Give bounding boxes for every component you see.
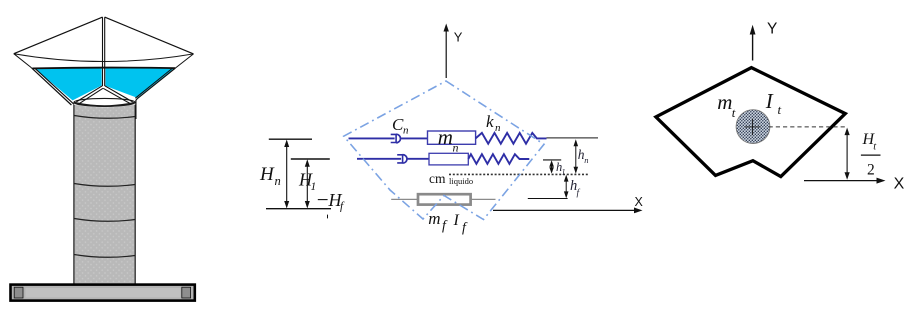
tank outline dash-dot [344, 81, 544, 220]
Y axis middle [444, 24, 463, 79]
svg-text:n: n [584, 155, 588, 165]
dim tick bottom left [266, 208, 331, 210]
tank outer wall left [32, 68, 72, 105]
label Ht over 2 [861, 131, 881, 179]
wire row2 left [357, 158, 401, 160]
wire row1 mid [400, 137, 427, 139]
svg-text:1: 1 [311, 181, 317, 193]
svg-text:X: X [635, 195, 644, 209]
label mn [438, 125, 459, 155]
foundation left wire [391, 198, 417, 200]
svg-text:k: k [486, 112, 494, 131]
damper row2 [397, 154, 407, 163]
svg-text:n: n [403, 125, 409, 137]
spring kn row1 [476, 133, 547, 144]
mass box mn [428, 131, 476, 144]
foundation right wire [472, 198, 496, 200]
center column line left [102, 17, 104, 86]
svg-text:m: m [438, 125, 453, 149]
center column line right [104, 17, 106, 86]
dim tick mid left [291, 158, 330, 160]
tank cross-section outline [656, 68, 845, 177]
water body [35, 67, 175, 100]
dim hf arrow [564, 175, 581, 199]
svg-text:H: H [259, 164, 275, 185]
mass circle mt [736, 110, 770, 144]
svg-text:m: m [428, 209, 440, 228]
tank roof left edge [14, 17, 103, 54]
shaft joint line 2 [74, 184, 135, 187]
shaft body [74, 105, 135, 285]
svg-text:liquido: liquido [449, 176, 473, 186]
center column white band [102, 66, 106, 86]
svg-text:f: f [577, 188, 581, 199]
column V branch left inner [80, 88, 103, 103]
column V branch right outer [105, 86, 133, 102]
rim edge line right [175, 54, 193, 68]
mass box row2 [429, 153, 468, 165]
shaft joint line 3 [74, 219, 135, 222]
wire row2 mid [407, 158, 429, 160]
svg-text:f: f [442, 219, 448, 234]
svg-text:cm: cm [429, 171, 446, 186]
dim hn arrow right [574, 139, 589, 174]
svg-text:Y: Y [767, 21, 777, 38]
tick h1 [543, 159, 561, 161]
dim tick top left [269, 138, 312, 140]
center cross [745, 119, 761, 136]
wire row1 left [349, 137, 395, 139]
tank roof right edge [105, 17, 194, 54]
tank inner wall left [35, 68, 74, 104]
tank rim front arc [14, 54, 194, 62]
svg-text:n: n [275, 174, 281, 188]
foundation box mf [418, 194, 471, 204]
svg-text:1: 1 [562, 168, 566, 177]
dim Ht/2 arrow [845, 128, 850, 180]
dashed line from circle [769, 126, 846, 128]
svg-text:I: I [453, 212, 460, 229]
svg-text:t: t [778, 102, 782, 117]
shaft joint line 4 [74, 255, 135, 258]
dim h1 arrow [549, 160, 565, 177]
column V branch right inner [103, 88, 130, 103]
dotted line cm level [449, 173, 588, 175]
Y axis right [750, 21, 778, 61]
damper Cn row1 [391, 134, 401, 143]
spring row2 [468, 154, 529, 164]
reference line hn top [547, 137, 599, 139]
label kn [486, 112, 501, 134]
label It [765, 89, 782, 117]
svg-text:X: X [894, 176, 905, 193]
label mf If [428, 209, 468, 236]
X axis right [804, 176, 905, 193]
water surface line [33, 67, 176, 70]
column V branch left outer [76, 86, 102, 102]
svg-text:f: f [462, 221, 468, 236]
rim edge line left [14, 54, 32, 68]
svg-text:n: n [495, 122, 501, 134]
X axis middle [493, 195, 644, 213]
dim H1 arrow [298, 159, 316, 208]
base slab [11, 285, 195, 301]
shaft top rim ellipse [74, 98, 135, 106]
label Cn [392, 115, 409, 137]
svg-text:I: I [765, 89, 774, 113]
label cm liquido [429, 171, 473, 186]
svg-text:2: 2 [867, 161, 875, 178]
svg-text:n: n [453, 141, 459, 155]
svg-text:f: f [340, 201, 345, 213]
shaft joint line 1 [74, 116, 135, 119]
svg-text:t: t [732, 105, 736, 120]
tank outer wall right [136, 68, 175, 119]
tank inner wall right [135, 68, 172, 98]
label Hf with leader [318, 190, 345, 218]
svg-text:t: t [873, 141, 877, 152]
svg-text:m: m [717, 90, 732, 114]
svg-text:Y: Y [454, 30, 463, 45]
dim Hn arrow [259, 140, 289, 209]
label mt [717, 90, 736, 120]
tick hf bottom [528, 198, 568, 200]
